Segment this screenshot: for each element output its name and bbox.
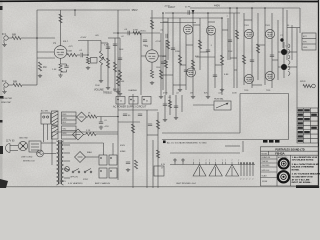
wire CR1 to filter xyxy=(96,133,118,135)
capacitor can C16B xyxy=(129,97,138,105)
capacitor C15 xyxy=(174,105,178,107)
wire tie pa3 xyxy=(272,59,278,61)
svg-text:7: 7 xyxy=(206,160,207,162)
ground switch S1 xyxy=(18,141,27,150)
svg-text:500K: 500K xyxy=(119,49,124,51)
resistor R32 xyxy=(88,115,97,118)
resistor R13C xyxy=(164,60,167,68)
wire CR1 out xyxy=(84,133,87,136)
svg-text:+415V: +415V xyxy=(164,6,171,8)
capacitor C10 xyxy=(161,61,165,63)
svg-text:100K: 100K xyxy=(67,51,73,53)
note marker xyxy=(163,141,166,144)
svg-text:C.O.: C.O. xyxy=(285,46,289,48)
svg-text:GND: GND xyxy=(303,47,308,49)
ground tone xyxy=(119,92,121,94)
resistor R18 xyxy=(191,60,194,69)
heater junction a xyxy=(174,159,176,165)
svg-text:AMP CHASSIS: AMP CHASSIS xyxy=(95,182,110,185)
svg-text:220K: 220K xyxy=(232,93,237,95)
tube V2 6SL7 xyxy=(146,50,158,62)
wire tie h xyxy=(193,24,200,26)
resistor R7B xyxy=(118,70,121,80)
speaker jack J3 xyxy=(311,84,315,88)
ground R15 xyxy=(179,88,181,90)
svg-text:2: 2 xyxy=(246,179,247,181)
resistor R24 xyxy=(168,100,171,108)
wire PI x237 xyxy=(236,8,238,88)
svg-text:270K: 270K xyxy=(228,51,233,53)
wire PA x252 xyxy=(251,8,253,88)
capacitor C2 25MF xyxy=(64,65,68,67)
capacitor C14 xyxy=(163,103,167,105)
wire PS x133 xyxy=(132,94,134,188)
svg-text:VOLUME: VOLUME xyxy=(94,90,104,92)
resistor R20 screen xyxy=(256,44,259,53)
svg-text:+150V: +150V xyxy=(80,37,87,39)
wire sec 6 xyxy=(64,177,70,179)
svg-text:1.5K: 1.5K xyxy=(52,69,57,71)
ground pi 1 xyxy=(192,95,194,97)
svg-text:OFF-ON: OFF-ON xyxy=(70,177,78,179)
capacitor C20D 20MF xyxy=(109,168,117,178)
wire CR2 out xyxy=(86,156,100,158)
capacitor can C16C xyxy=(142,97,151,105)
svg-text:3.3M: 3.3M xyxy=(104,45,109,47)
svg-text:.005: .005 xyxy=(95,35,99,37)
resistor R7 470K xyxy=(86,57,89,64)
heater pin ticks xyxy=(194,162,239,165)
tube heater triangle 2 xyxy=(209,165,222,177)
wire to T1 top xyxy=(41,142,52,144)
resistor VR2 treble xyxy=(106,58,109,68)
resistor R19 xyxy=(235,30,238,39)
wire rail B xyxy=(165,12,240,14)
tube V7 7591 lower right xyxy=(265,71,274,80)
tube heater triangle 3 xyxy=(226,165,239,177)
wire grid 2 xyxy=(37,57,55,59)
svg-text:1500: 1500 xyxy=(156,67,160,69)
wire stub y146 xyxy=(225,145,240,147)
wire VR1 top xyxy=(100,41,102,52)
svg-text:2.2K: 2.2K xyxy=(86,130,91,132)
svg-text:FROM PWR: FROM PWR xyxy=(1,98,13,100)
wire rail A xyxy=(150,17,222,19)
tube V3B phase inverter xyxy=(206,26,215,35)
wire tie pa1 xyxy=(244,19,252,21)
capacitor C5B xyxy=(118,57,122,59)
wire V1 plate to rail xyxy=(60,10,62,46)
wire J1 to grid xyxy=(21,37,55,39)
wire V2 plate rail xyxy=(151,10,153,50)
wire TS1 to CR3 xyxy=(75,116,78,118)
tube V1 6SL7 xyxy=(54,46,67,59)
wire HV secondary to caps xyxy=(64,142,104,144)
capacitor C20B 40MF xyxy=(109,155,117,165)
svg-text:.01: .01 xyxy=(104,120,107,122)
svg-text:NOTED.: NOTED. xyxy=(292,170,300,172)
tube heater triangle 1 xyxy=(193,165,206,177)
revision marks xyxy=(263,140,280,143)
svg-text:INTERLOCK: INTERLOCK xyxy=(23,161,36,163)
wire PI x173 xyxy=(172,13,174,95)
svg-text:TREBLE: TREBLE xyxy=(103,93,112,95)
input jack J2 xyxy=(4,83,13,90)
ground J1 xyxy=(4,43,6,45)
svg-text:1M: 1M xyxy=(190,93,193,95)
wire tie y65 xyxy=(180,64,186,66)
interlock box xyxy=(29,141,41,152)
wire tone x108 xyxy=(107,43,109,86)
node rail x75 xyxy=(74,9,76,11)
wire T1 primary feed xyxy=(51,132,53,165)
svg-text:440V: 440V xyxy=(214,4,220,8)
wire PS x158 xyxy=(157,112,159,188)
resistor R14 xyxy=(166,40,169,49)
capacitor C21 xyxy=(99,121,103,123)
wire CR3 to filter xyxy=(97,116,118,118)
wire sec 3 xyxy=(64,152,70,154)
svg-text:AT 117 V AC LINE: AT 117 V AC LINE xyxy=(292,178,310,181)
wire primary rail y132 xyxy=(52,131,118,133)
svg-text:SPKR: SPKR xyxy=(300,81,306,83)
resistor R29 xyxy=(134,160,137,169)
wire mains neutral xyxy=(14,150,18,152)
svg-text:LINE CORD: LINE CORD xyxy=(21,157,33,159)
wire sec 2 xyxy=(64,144,70,146)
resistor VR3 bass xyxy=(113,62,116,72)
svg-text:(7025): (7025) xyxy=(140,31,146,33)
svg-text:CHECKED: CHECKED xyxy=(262,165,271,167)
wire tie f xyxy=(173,84,186,86)
svg-text:+35V: +35V xyxy=(104,126,109,128)
wire to presence xyxy=(193,104,214,106)
svg-text:6.8K: 6.8K xyxy=(224,74,229,76)
resistor R4 1.5K xyxy=(59,64,62,72)
wire PI x163 xyxy=(162,13,164,90)
svg-text:1. ALL RESISTORS 1/2 W: 1. ALL RESISTORS 1/2 W xyxy=(292,156,319,159)
wire tie y57 xyxy=(196,56,215,58)
rectifier bridge CR1 xyxy=(73,129,84,140)
capacitor C9 xyxy=(206,49,210,51)
wire PA x244 xyxy=(243,13,245,85)
wire ml x182 xyxy=(181,95,183,112)
wire cap feed 2 xyxy=(112,143,114,155)
ground R7 xyxy=(87,66,89,68)
svg-text:7: 7 xyxy=(225,160,226,162)
capacitor C3B xyxy=(91,58,98,64)
wire B+ rail 350V xyxy=(37,9,130,11)
wire primary top xyxy=(52,142,56,144)
wire ml x165 xyxy=(164,95,166,118)
svg-text:68K: 68K xyxy=(12,34,17,37)
wire rail drop x37 xyxy=(36,10,38,38)
resistor R15 xyxy=(178,55,181,65)
svg-text:AC SW: AC SW xyxy=(41,110,48,113)
AC plug P1 xyxy=(6,144,15,153)
wire mains hot xyxy=(14,145,18,147)
heater pin numbers xyxy=(193,160,239,162)
svg-text:YEL: YEL xyxy=(63,129,66,131)
wire sec 5 xyxy=(64,169,70,171)
wire bus y93 xyxy=(240,93,289,95)
approval stamp seal 2 xyxy=(278,171,289,182)
wire PA x265 xyxy=(264,8,266,85)
wire B+ rail 440V xyxy=(190,7,268,9)
ground V2 cathode xyxy=(151,81,153,83)
svg-text:NONE: NONE xyxy=(262,181,268,183)
wire to T1 bottom xyxy=(44,153,52,155)
wire to C3 xyxy=(77,54,80,56)
wire PS rail y110 xyxy=(118,109,158,111)
svg-text:2: 2 xyxy=(240,179,241,181)
resistor R13B xyxy=(159,70,162,79)
wire PA x258 xyxy=(257,13,259,80)
input jack J1 xyxy=(4,36,12,43)
switch box S4 AC xyxy=(41,113,51,142)
svg-text:7: 7 xyxy=(193,160,194,162)
ground VR1 xyxy=(100,79,102,81)
resistor R16 xyxy=(198,40,201,49)
wire PI x228 xyxy=(227,18,229,60)
wire C2 top xyxy=(66,64,68,66)
svg-text:HUM BAL: HUM BAL xyxy=(214,98,225,101)
wire CR3 out xyxy=(87,116,89,118)
wire right x292 xyxy=(291,25,293,60)
wire VR1 bottom xyxy=(100,65,102,79)
fuse F2 xyxy=(65,167,70,172)
capacitor C6 .05 xyxy=(127,31,129,35)
transformer T1 primary winding xyxy=(52,111,59,125)
rectifier bridge CR2 xyxy=(75,152,86,163)
ground J2 xyxy=(4,90,6,92)
tube V6 7591 lower left xyxy=(244,74,253,83)
wire tie g xyxy=(230,57,237,59)
svg-text:UNLESS OTHERWISE: UNLESS OTHERWISE xyxy=(292,167,315,169)
terminal strip TS1 xyxy=(62,112,77,124)
svg-text:10% UNLESS NOTED.: 10% UNLESS NOTED. xyxy=(292,160,315,162)
wire cathode join xyxy=(61,71,67,73)
wire tie y85 xyxy=(252,84,262,86)
wire right x297 xyxy=(296,28,298,108)
capacitor C13 xyxy=(270,54,274,56)
title notes xyxy=(292,156,320,184)
wire C21 stub xyxy=(100,117,102,123)
wire ml x170 xyxy=(169,95,171,115)
wire PA x278 xyxy=(277,20,279,80)
wire PS tie y135 xyxy=(147,134,158,136)
svg-text:470K: 470K xyxy=(133,30,139,32)
capacitor C19 xyxy=(126,161,130,163)
svg-text:TO GND WITH VTVM: TO GND WITH VTVM xyxy=(292,177,313,179)
svg-text:250K: 250K xyxy=(95,85,100,87)
svg-text:GND SW: GND SW xyxy=(19,138,28,140)
svg-text:7: 7 xyxy=(209,160,210,162)
svg-text:220K: 220K xyxy=(175,51,181,53)
approval stamp seal 1 xyxy=(279,159,289,169)
svg-text:1M: 1M xyxy=(43,66,46,69)
resistor R11 100K xyxy=(150,20,153,29)
svg-text:+180: +180 xyxy=(162,56,166,58)
wire cap feed 1 xyxy=(103,143,105,155)
wire bus x288 drop xyxy=(288,94,290,140)
wire PI x186 xyxy=(185,33,187,90)
svg-text:6.3V HEATERS: 6.3V HEATERS xyxy=(68,182,83,185)
resistor R27 xyxy=(131,124,134,133)
capacitor C24 xyxy=(187,10,189,14)
resistor R30 xyxy=(156,150,159,158)
svg-text:7591: 7591 xyxy=(265,25,271,27)
svg-text:7: 7 xyxy=(199,160,200,162)
transformer T1 core xyxy=(57,140,64,185)
potentiometer VR4 presence xyxy=(214,101,231,110)
resistor R28 xyxy=(156,120,159,129)
transformer T1 secondary winding xyxy=(52,126,59,139)
capacitor C17 40MF xyxy=(138,113,142,115)
ground C15 xyxy=(175,116,177,118)
wire PS x147 xyxy=(146,110,148,188)
wire tie pa2 xyxy=(258,44,265,46)
svg-text:2: 2 xyxy=(252,179,253,181)
wire PA x272 xyxy=(271,13,273,88)
ground V1 cathode xyxy=(60,74,62,76)
terminal strip TS2 xyxy=(62,126,77,139)
svg-text:BASS: BASS xyxy=(113,89,120,92)
capacitor C7 .02 xyxy=(165,34,167,38)
wire drop x166 xyxy=(165,40,167,95)
wire tie e xyxy=(163,74,173,76)
wire bus x240 drop xyxy=(239,94,241,134)
svg-text:MODEL: MODEL xyxy=(262,153,268,155)
resistor R3 1M xyxy=(38,62,41,71)
svg-text:41 PF: 41 PF xyxy=(185,7,191,9)
resistor R6 100K xyxy=(67,53,77,56)
svg-text:FB43A: FB43A xyxy=(275,152,285,156)
svg-text:6SL7: 6SL7 xyxy=(63,41,69,43)
wire PI x208 xyxy=(207,13,209,95)
capacitor C16 40MF xyxy=(123,113,127,115)
heater junction b xyxy=(182,159,184,165)
wire tick x243 xyxy=(242,141,244,152)
heater comb taps xyxy=(240,163,254,177)
node filter in xyxy=(117,116,119,118)
wire right x287 xyxy=(286,10,288,60)
capacitor C20A 40MF xyxy=(99,155,107,165)
resistor R21 grid xyxy=(242,55,245,64)
wire input bus vertical xyxy=(36,38,38,85)
resistor R17 xyxy=(220,55,223,65)
wire J2 xyxy=(22,84,37,86)
ground C14 xyxy=(164,118,166,120)
resistor R22 ext xyxy=(303,84,311,87)
capacitor C3 .02 xyxy=(80,53,82,57)
wire PI x234 xyxy=(233,13,235,88)
svg-text:+170V: +170V xyxy=(155,41,161,43)
ground R13B xyxy=(160,95,162,97)
node input junction xyxy=(36,37,38,39)
wire rail y40 xyxy=(78,40,101,42)
svg-text:GRN: GRN xyxy=(63,118,68,120)
wire tie a xyxy=(163,21,168,23)
voltage chart entries xyxy=(298,109,317,142)
svg-text:6.3V: 6.3V xyxy=(161,164,166,166)
wire right x300 drop xyxy=(299,8,301,33)
wire PI x168 xyxy=(167,18,169,60)
svg-text:68K: 68K xyxy=(13,81,18,84)
svg-text:450V: 450V xyxy=(120,145,126,147)
svg-text:CHANNEL: CHANNEL xyxy=(128,89,137,92)
wire drop x141 xyxy=(140,33,142,95)
svg-text:40MF: 40MF xyxy=(120,151,126,153)
capacitor can C16A xyxy=(116,97,125,105)
wire long feedback 1 xyxy=(162,132,240,134)
svg-text:STBY: STBY xyxy=(83,179,89,181)
wire V2 out xyxy=(158,55,166,57)
capacitor C22 xyxy=(184,69,188,71)
polarity triangle xyxy=(192,10,195,14)
switch S2 on-off xyxy=(72,169,80,173)
wire primary bottom xyxy=(52,153,56,155)
svg-text:470K: 470K xyxy=(163,93,168,95)
wire heater line xyxy=(170,164,255,166)
svg-text:7591: 7591 xyxy=(244,25,250,27)
wire PI x200 xyxy=(199,18,201,70)
svg-text:BIAS: BIAS xyxy=(87,151,92,154)
wire PI x193 xyxy=(192,13,194,95)
ground R3 xyxy=(39,74,41,76)
fuse F1 xyxy=(37,150,44,157)
wire tone tee 1 xyxy=(101,42,108,44)
svg-text:7: 7 xyxy=(215,160,216,162)
svg-text:7: 7 xyxy=(232,160,233,162)
capacitor C6B xyxy=(143,39,147,41)
wire PS tie y122 xyxy=(118,121,140,123)
svg-text:40: 40 xyxy=(120,101,122,103)
wire tie b xyxy=(186,44,193,46)
svg-text:IN 2: IN 2 xyxy=(2,80,7,83)
terminal box TB1 xyxy=(154,166,164,176)
comb pin numbers xyxy=(240,179,253,181)
wire V2 cathode drop xyxy=(151,62,153,70)
capacitor C20C 20MF xyxy=(99,168,107,178)
wire V1 plate out xyxy=(66,54,68,56)
svg-text:40: 40 xyxy=(133,101,135,103)
title block xyxy=(261,147,319,186)
wire tie j xyxy=(222,29,228,31)
wire tone x120 xyxy=(119,38,121,92)
wire PS x153 xyxy=(152,140,154,188)
capacitor C11 xyxy=(228,39,232,41)
capacitor C18 xyxy=(148,123,152,125)
wire tie k xyxy=(234,69,237,71)
resistor R12 xyxy=(150,70,153,78)
wire stage2 rail y33 xyxy=(113,32,160,34)
wire heater supply bus xyxy=(170,152,240,154)
wire sec 4 xyxy=(64,160,70,162)
ground R17 xyxy=(221,88,223,90)
resistor R1 68K xyxy=(12,36,21,39)
wire PI x215 xyxy=(214,33,216,88)
wire x88 riser xyxy=(87,41,89,56)
capacitor C4 .005 xyxy=(106,46,110,48)
wire OT secondary 1 xyxy=(287,51,297,53)
svg-text:T-123: T-123 xyxy=(60,181,66,183)
svg-text:LAST REVISED 4-64: LAST REVISED 4-64 xyxy=(176,182,196,185)
svg-text:2: 2 xyxy=(243,179,244,181)
svg-text:7: 7 xyxy=(238,160,239,162)
resistor R2 68K xyxy=(13,83,22,86)
junction blob xyxy=(280,38,283,41)
